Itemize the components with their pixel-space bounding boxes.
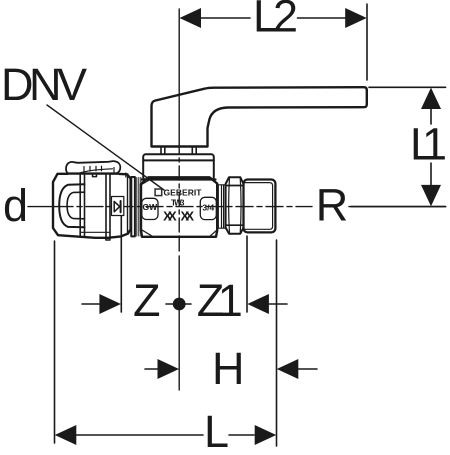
svg-text:Z: Z: [133, 275, 160, 326]
connector shoulder line under cap: [66, 173, 121, 175]
H left arrow: [158, 359, 180, 379]
cap ticks: [84, 166, 102, 171]
body top edge: [142, 178, 216, 180]
H right arrow: [277, 359, 299, 379]
clamp band: [80, 174, 110, 237]
cap center notch: [93, 173, 97, 176]
valve body face: [141, 177, 217, 237]
svg-text:3/4: 3/4: [202, 203, 214, 213]
union nut: [226, 177, 244, 234]
neck ring: [217, 185, 225, 228]
dimension L2 line: [201, 4, 367, 80]
vertical center axis line: [178, 9, 180, 140]
stem flange plate: [143, 154, 214, 179]
svg-text:R: R: [316, 180, 348, 231]
svg-text:XX: XX: [163, 208, 177, 223]
svg-text:d: d: [3, 180, 27, 231]
clamp U lever: [59, 184, 84, 227]
GW panel: [142, 198, 158, 219]
svg-text:XX: XX: [181, 208, 195, 223]
L2 left arrow: [180, 8, 202, 28]
dimension Z Z1 line: [82, 215, 287, 312]
center dot: [173, 298, 186, 311]
Z arrow: [99, 294, 121, 314]
dimension L line: [55, 241, 255, 443]
L right arrow: [255, 425, 277, 445]
svg-text:L1: L1: [410, 119, 446, 170]
collet section: [110, 168, 128, 178]
connector cap: [66, 161, 120, 173]
dimension L1 line: [351, 87, 446, 206]
threaded male end: [244, 180, 276, 233]
svg-text:L: L: [204, 406, 228, 450]
L1 down arrow: [421, 185, 441, 206]
svg-text:TW3: TW3: [171, 199, 185, 208]
Z1 arrow: [247, 294, 269, 314]
left ribbed ring: [131, 177, 135, 236]
check valve symbol: [114, 201, 120, 211]
handle stem stubs: [161, 147, 196, 155]
svg-text:H: H: [212, 343, 244, 394]
L left arrow: [55, 425, 77, 445]
push-fit connector outer body: [53, 174, 131, 238]
dimension H line: [145, 240, 317, 446]
valve handle lever: [152, 87, 367, 146]
body corner chamfer lines: [142, 178, 154, 185]
svg-text:DNV: DNV: [1, 59, 87, 110]
horizontal center axis line: [28, 206, 56, 208]
L2 right arrow: [345, 8, 367, 28]
svg-text:L2: L2: [253, 0, 297, 42]
DNV leader line: [47, 105, 164, 190]
svg-text:Z1: Z1: [197, 275, 242, 326]
check valve symbol box: [112, 197, 124, 216]
geberit logo text: [155, 189, 162, 196]
svg-text:GEBERIT: GEBERIT: [164, 188, 203, 198]
connector bottom tab: [106, 238, 110, 240]
svg-text:GW: GW: [142, 202, 158, 212]
center dot crosshair tick: [166, 303, 191, 305]
3/4 panel: [200, 197, 216, 219]
L1 up arrow: [421, 88, 441, 109]
